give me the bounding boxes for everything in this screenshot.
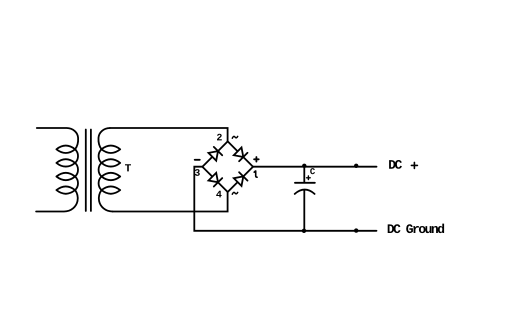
wire secondary top to bridge AC node 2 (110, 128, 228, 141)
label DC + (389, 160, 417, 169)
wire bridge - output to DC ground rail (194, 167, 376, 231)
bridge diamond edge T-R (228, 141, 253, 166)
bridge AC mark ~ top (232, 136, 237, 138)
capacitor C bottom lead (303, 190, 305, 231)
bridge pin label 2 (217, 134, 222, 141)
capacitor label C (310, 168, 315, 174)
terminal dot DC + (354, 164, 358, 168)
bridge diamond edge B-R (228, 167, 253, 192)
transformer T core (86, 130, 91, 212)
wire secondary bottom to bridge AC node 4 (113, 192, 228, 212)
junction dot cap top (302, 164, 306, 168)
bridge diamond edge L-T (202, 141, 227, 166)
diode lower-left (anode - , cathode node 4) (209, 173, 223, 187)
capacitor polarity + (307, 176, 311, 180)
bridge pin label 3 (195, 169, 200, 176)
diode upper-left (anode - , cathode node 2) (209, 147, 223, 161)
bridge AC mark ~ bottom (232, 192, 237, 194)
junction dot cap bottom (302, 229, 306, 233)
terminal dot DC ground (354, 228, 358, 232)
capacitor C flat plate (295, 182, 315, 184)
capacitor C top lead (303, 166, 305, 183)
bridge pin label 1 (254, 171, 257, 178)
bridge plus mark (254, 157, 259, 162)
bridge pin label 4 (216, 191, 221, 198)
transformer T primary winding (36, 128, 78, 212)
diode upper-right (anode node 2, cathode +) (234, 148, 248, 162)
wire bridge + output to DC + rail (253, 166, 377, 168)
label DC Ground (388, 224, 444, 234)
bridge diamond edge L-B (202, 167, 227, 192)
bridge minus mark (195, 159, 200, 161)
transformer T secondary winding (98, 128, 120, 212)
capacitor C curved plate (295, 190, 315, 194)
diode lower-right (anode node 4, cathode +) (234, 172, 248, 186)
transformer label T (125, 164, 131, 171)
